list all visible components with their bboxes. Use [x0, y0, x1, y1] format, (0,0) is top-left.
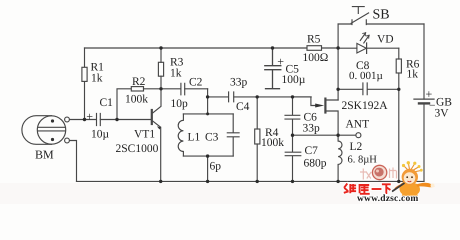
node rail emitter	[159, 180, 162, 183]
svg-text:L1: L1	[188, 132, 201, 144]
tank circuit top wire	[183, 113, 233, 115]
wire top rail	[85, 47, 338, 49]
wire C4 row	[208, 96, 312, 98]
svg-text:R2: R2	[132, 76, 146, 88]
wire C2 jog down	[207, 89, 209, 114]
node drain C8	[336, 88, 339, 91]
resistor R2	[131, 87, 143, 91]
node rail R6	[397, 180, 400, 183]
watermark text white halo	[344, 184, 391, 195]
svg-text:100µ: 100µ	[282, 74, 306, 86]
switch SB	[338, 7, 424, 48]
wire R3 bottom	[160, 76, 162, 89]
node rail R3	[159, 46, 162, 49]
svg-text:1k: 1k	[170, 68, 182, 80]
svg-text:L2: L2	[350, 141, 363, 153]
svg-text:33p: 33p	[303, 123, 321, 135]
svg-text:VD: VD	[377, 34, 394, 46]
svg-text:2SK192A: 2SK192A	[342, 100, 389, 112]
node rail tank	[206, 180, 209, 183]
resistor R4	[255, 129, 260, 144]
svg-text:VT1: VT1	[134, 129, 155, 141]
battery GB	[414, 24, 434, 181]
wire R2 to collector node	[144, 88, 162, 90]
svg-text:3V: 3V	[435, 108, 450, 120]
capacitor C7	[285, 135, 301, 181]
wire R4 bottom	[256, 144, 258, 181]
diode VD	[338, 33, 399, 54]
wire BM bottom	[69, 141, 76, 182]
svg-text:+: +	[426, 87, 433, 101]
svg-text:1k: 1k	[91, 73, 103, 85]
wire supply column to drain	[337, 48, 339, 100]
transistor U1 2SK192A jfet	[293, 97, 339, 135]
node C2 jog	[206, 95, 209, 98]
wire C1 to base	[100, 119, 151, 121]
node tank bottom	[206, 154, 209, 157]
svg-text:100Ω: 100Ω	[303, 52, 329, 64]
svg-text:C2: C2	[189, 77, 203, 89]
svg-text:C1: C1	[100, 97, 114, 109]
wire R3 top	[160, 48, 162, 62]
svg-text:680p: 680p	[304, 158, 327, 170]
node gate	[291, 95, 294, 98]
svg-text:10µ: 10µ	[91, 129, 110, 141]
wire source row	[293, 134, 356, 136]
svg-text:33p: 33p	[230, 77, 248, 89]
watermark text 维库一下	[344, 184, 391, 195]
node collector	[159, 87, 162, 90]
node rail L2	[336, 180, 339, 183]
capacitor C6	[285, 97, 300, 135]
bottom band tint	[0, 183, 460, 204]
capacitor C3	[227, 114, 239, 156]
svg-text:SB: SB	[373, 8, 390, 23]
capacitor C1	[97, 114, 101, 126]
svg-text:R5: R5	[307, 34, 321, 46]
svg-text:100k: 100k	[261, 137, 284, 149]
svg-text:www.dzsc.com: www.dzsc.com	[357, 194, 419, 204]
wire bottom rail	[77, 180, 425, 182]
svg-text:ANT: ANT	[346, 119, 370, 131]
node C8 R6	[397, 88, 400, 91]
svg-text:2SC1000: 2SC1000	[116, 143, 159, 155]
svg-text:6p: 6p	[210, 161, 222, 173]
resistor R5	[307, 46, 322, 51]
inductor L2	[338, 135, 342, 181]
microphone BM	[22, 116, 70, 145]
resistor R6	[396, 59, 401, 73]
wire R6 bottom to rail	[398, 73, 400, 181]
node rail C5	[271, 46, 274, 49]
svg-text:−: −	[429, 100, 436, 112]
svg-text:+: +	[86, 110, 93, 124]
node source L2	[336, 134, 339, 137]
capacitor C8	[338, 83, 399, 95]
resistor R3	[158, 62, 163, 76]
svg-text:C3: C3	[205, 132, 219, 144]
node tank top	[206, 112, 209, 115]
wire tank to ground	[207, 156, 209, 181]
svg-text:+: +	[277, 55, 284, 69]
watermark mascot	[392, 161, 435, 201]
node rail SB	[336, 46, 339, 49]
watermark stamp circle	[372, 165, 386, 179]
wire BM top row	[69, 119, 96, 121]
wire R6 top	[398, 48, 400, 59]
svg-text:C7: C7	[305, 145, 319, 157]
capacitor C5	[265, 48, 281, 89]
wire R2 branch	[117, 89, 131, 120]
wire left column	[84, 48, 86, 120]
antenna ANT terminal	[356, 133, 361, 138]
node C1 R2	[115, 118, 118, 121]
svg-text:6. 8µH: 6. 8µH	[348, 154, 378, 165]
transistor VT1	[152, 89, 161, 182]
inductor L1	[178, 114, 183, 156]
resistor R1	[82, 67, 87, 81]
tank circuit bottom wire	[183, 155, 233, 157]
capacitor C2	[181, 83, 185, 95]
wire C2 row	[161, 88, 208, 90]
node C6 C7	[291, 134, 294, 137]
svg-text:10p: 10p	[171, 98, 189, 110]
node C1 R1	[83, 118, 86, 121]
watermark pale text	[360, 168, 397, 180]
svg-text:100k: 100k	[125, 94, 148, 106]
node R4 top	[256, 95, 259, 98]
wire R4 top	[256, 97, 258, 129]
capacitor C4	[229, 92, 234, 102]
svg-text:C4: C4	[236, 101, 250, 113]
node rail C7	[291, 180, 294, 183]
svg-text:0. 001µ: 0. 001µ	[349, 70, 383, 82]
svg-text:BM: BM	[35, 148, 54, 162]
node rail R4	[256, 180, 259, 183]
svg-text:1k: 1k	[407, 69, 419, 81]
